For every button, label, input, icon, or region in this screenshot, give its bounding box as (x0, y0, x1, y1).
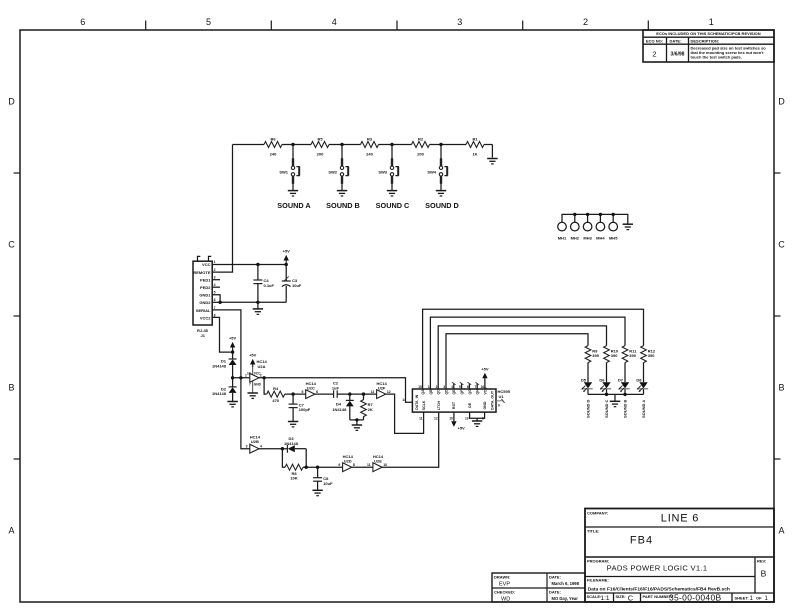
side zone ticks (14, 173, 781, 459)
svg-text:D8: D8 (636, 377, 642, 382)
svg-text:C: C (628, 594, 634, 603)
wire LED cathode rail (588, 393, 644, 395)
node R4 branch (262, 376, 265, 379)
mounting hole MH5 (609, 222, 618, 231)
zone letters left (8, 97, 15, 536)
svg-text:MH2: MH2 (571, 236, 580, 241)
svg-text:LTCH: LTCH (437, 400, 441, 410)
svg-text:COMPANY:: COMPANY: (587, 511, 608, 516)
wire R8 branch (282, 449, 306, 468)
mounting hole MH1 (558, 222, 567, 231)
node C4 top (256, 263, 259, 266)
wire LTCH net (382, 412, 439, 467)
resistor R8 (285, 464, 303, 470)
wire MH common rail (562, 214, 628, 224)
svg-text:240: 240 (270, 152, 277, 157)
wire SERIAL net (212, 310, 250, 449)
svg-text:4: 4 (451, 385, 453, 389)
node D3/R8 left (281, 447, 284, 450)
svg-text:200: 200 (317, 152, 324, 157)
svg-text:4: 4 (214, 283, 216, 287)
svg-text:DATA_IN: DATA_IN (415, 394, 419, 409)
svg-text:QG: QG (468, 389, 472, 395)
svg-text:U2A: U2A (258, 364, 266, 369)
svg-text:R5: R5 (317, 137, 323, 142)
svg-text:March 6, 1998: March 6, 1998 (552, 581, 580, 586)
svg-text:U2F: U2F (378, 386, 386, 391)
capacitor C3 polarized (285, 265, 287, 282)
svg-text:390: 390 (592, 353, 599, 358)
svg-text:1N4148: 1N4148 (332, 407, 347, 412)
svg-text:13: 13 (465, 417, 469, 421)
svg-text:REV:: REV: (757, 559, 766, 564)
svg-text:ECOs INCLUDED ON THIS SCHEMATI: ECOs INCLUDED ON THIS SCHEMATIC/PCB REVI… (656, 31, 760, 36)
no-connect stubs QE-QH (454, 384, 477, 390)
svg-text:QC: QC (437, 389, 441, 395)
svg-text:B: B (8, 383, 14, 393)
svg-text:D: D (778, 97, 785, 107)
wire rail QA to R12 (423, 309, 644, 389)
wire top chain left vertical to J1 REMOTE (212, 145, 232, 273)
power +5V U2A (250, 359, 255, 367)
resistor R12 (641, 346, 647, 363)
power +5V U1 VCC (484, 378, 486, 389)
svg-text:SERIAL: SERIAL (196, 308, 211, 313)
svg-text:QB: QB (429, 389, 433, 395)
ground SW2 (337, 191, 347, 196)
svg-text:15: 15 (418, 385, 422, 389)
svg-text:SOUND A: SOUND A (641, 400, 646, 418)
zone letters right (778, 97, 785, 536)
svg-text:touch the test switch pads.: touch the test switch pads. (691, 55, 742, 60)
capacitor C4 (257, 265, 259, 281)
resistor R11 (622, 346, 628, 363)
wire U2F to SCLK (386, 394, 424, 433)
svg-text:9: 9 (338, 463, 340, 467)
svg-text:DATE:: DATE: (549, 590, 561, 595)
svg-text:7: 7 (475, 385, 477, 389)
svg-text:C: C (8, 240, 15, 250)
wire R8 to U2D (303, 466, 343, 468)
node R7 tap (362, 392, 365, 395)
svg-text:200: 200 (417, 152, 424, 157)
node serial crossing (239, 376, 242, 379)
svg-text:DATA_OUT: DATA_OUT (491, 390, 495, 410)
svg-text:OE: OE (468, 402, 472, 408)
svg-text:QH: QH (476, 389, 480, 395)
svg-text:R2: R2 (418, 137, 424, 142)
resistor R7 (363, 394, 365, 400)
svg-text:1: 1 (428, 385, 430, 389)
svg-text:4: 4 (260, 445, 262, 449)
svg-text:390: 390 (648, 353, 655, 358)
top pin labels QA-QH VCC (421, 387, 487, 395)
svg-text:R4: R4 (273, 386, 279, 391)
wire VCC rail (212, 264, 286, 266)
node switch tap 3 (390, 143, 393, 146)
svg-text:11: 11 (419, 417, 423, 421)
svg-text:QA: QA (421, 389, 425, 395)
resistor R3 (361, 142, 379, 148)
svg-text:R6: R6 (270, 137, 276, 142)
svg-text:REMOTE: REMOTE (193, 270, 210, 275)
wire rail QD to R9 (446, 334, 588, 389)
svg-text:TITLE:: TITLE: (587, 529, 599, 534)
svg-text:U1: U1 (499, 394, 505, 399)
svg-text:WD: WD (501, 597, 510, 603)
svg-text:3: 3 (246, 445, 248, 449)
svg-text:2: 2 (214, 268, 216, 272)
wire rail QC to R10 (438, 326, 606, 389)
svg-text:3: 3 (443, 385, 445, 389)
svg-text:7: 7 (214, 306, 216, 310)
svg-text:SOUND B: SOUND B (326, 201, 360, 210)
title block (585, 509, 774, 603)
svg-text:0.1uF: 0.1uF (264, 283, 275, 288)
svg-text:SIZE:: SIZE: (616, 594, 626, 599)
ground J1 decoupling (257, 302, 259, 309)
svg-text:35-00-0040B: 35-00-0040B (669, 593, 721, 603)
svg-text:2: 2 (652, 50, 656, 59)
svg-text:DATE:: DATE: (670, 38, 682, 43)
svg-text:VCC2: VCC2 (200, 315, 211, 320)
svg-text:GND: GND (483, 401, 487, 409)
svg-text:R3: R3 (367, 137, 373, 142)
svg-text:470: 470 (272, 398, 279, 403)
svg-text:390: 390 (629, 353, 636, 358)
svg-text:D5: D5 (581, 377, 587, 382)
svg-text:SW1: SW1 (279, 170, 288, 175)
svg-text:FB4: FB4 (630, 535, 653, 547)
svg-text:SOUND A: SOUND A (277, 201, 311, 210)
node switch tap 4 (439, 143, 442, 146)
svg-text:3: 3 (457, 17, 462, 27)
svg-text:13: 13 (371, 390, 375, 394)
svg-text:QD: QD (444, 389, 448, 395)
wire R4 to U2C (285, 393, 306, 395)
svg-text:MH1: MH1 (558, 236, 567, 241)
svg-text:1N4148: 1N4148 (212, 391, 227, 396)
wire OE and GND to ground (470, 412, 485, 418)
svg-text:100pF: 100pF (299, 407, 311, 412)
svg-text:MH3: MH3 (583, 236, 592, 241)
ground MH rail (623, 224, 633, 229)
top pin numbers (418, 385, 484, 389)
svg-text:RST: RST (452, 401, 456, 409)
switch SW2 (340, 158, 348, 184)
svg-text:3/6/98: 3/6/98 (671, 52, 685, 58)
wire D4/R7 bottom rail (350, 419, 364, 421)
IC U1 HC595 body (412, 389, 496, 412)
svg-text:DRAWN:: DRAWN: (494, 575, 510, 580)
svg-text:+5V: +5V (249, 353, 257, 358)
svg-text:PED1: PED1 (200, 277, 211, 282)
svg-text:OF: OF (756, 596, 762, 601)
node D4 tap (348, 392, 351, 395)
svg-text:SCALE:: SCALE: (587, 594, 602, 599)
svg-text:MH5: MH5 (609, 236, 618, 241)
switch SW4 (439, 158, 447, 184)
node switch tap 2 (340, 143, 343, 146)
svg-text:SW2: SW2 (328, 170, 337, 175)
svg-text:1: 1 (709, 17, 714, 27)
svg-text:LINE 6: LINE 6 (661, 513, 699, 525)
wire U2A output to U1 DATA_IN (259, 378, 412, 403)
svg-text:D: D (8, 97, 15, 107)
top zone ticks (146, 21, 649, 31)
svg-text:+5V: +5V (481, 366, 489, 371)
svg-text:12: 12 (434, 417, 438, 421)
svg-text:10uF: 10uF (292, 283, 302, 288)
mounting hole MH4 (596, 222, 605, 231)
svg-text:4: 4 (332, 17, 337, 27)
svg-text:6: 6 (467, 385, 469, 389)
svg-text:+5V: +5V (283, 249, 291, 254)
svg-text:1uF: 1uF (332, 385, 340, 390)
switch SW1 (291, 158, 299, 184)
svg-text:SW4: SW4 (427, 170, 436, 175)
ground SW3 (387, 191, 397, 196)
wire switch 3 drop (391, 145, 393, 159)
diode D4 (349, 394, 351, 400)
svg-text:1: 1 (214, 260, 216, 264)
svg-text:A: A (8, 526, 14, 536)
svg-text:D6: D6 (599, 377, 605, 382)
svg-text:16: 16 (481, 385, 485, 389)
svg-text:MH4: MH4 (596, 236, 605, 241)
wire clamp node to U2A input (233, 377, 250, 379)
resistor R1 (466, 142, 484, 148)
ground D2 (227, 402, 237, 407)
svg-text:CHECKED:: CHECKED: (494, 590, 515, 595)
capacitor C8 (317, 467, 319, 478)
svg-text:5: 5 (302, 390, 304, 394)
ground top chain right end (487, 159, 497, 164)
svg-text:J1: J1 (201, 333, 206, 338)
power +5V at C3 (284, 255, 289, 263)
svg-text:7: 7 (249, 383, 251, 387)
svg-text:5: 5 (214, 291, 216, 295)
node clamp (231, 376, 234, 379)
svg-text:1:1: 1:1 (601, 595, 610, 602)
svg-text:12: 12 (387, 390, 391, 394)
svg-text:GND1: GND1 (199, 293, 211, 298)
svg-text:U2E: U2E (374, 459, 382, 464)
svg-text:2: 2 (260, 374, 262, 378)
wire switch 4 drop (440, 145, 442, 159)
resistor R5 (311, 142, 329, 148)
svg-text:390: 390 (611, 353, 618, 358)
svg-text:1: 1 (245, 374, 247, 378)
ground U2A (248, 393, 258, 398)
zone numbers top (80, 17, 713, 27)
svg-text:2K: 2K (368, 407, 373, 412)
ground C7 (288, 422, 298, 427)
svg-text:DESCRIPTION:: DESCRIPTION: (691, 38, 720, 43)
svg-text:10K: 10K (290, 476, 297, 481)
svg-text:1N4148: 1N4148 (284, 441, 299, 446)
node C3 top (285, 263, 288, 266)
node MH taps (573, 213, 576, 216)
svg-text:QE: QE (452, 389, 456, 395)
mounting hole MH3 (583, 222, 592, 231)
svg-text:240: 240 (366, 152, 373, 157)
power +5V RST (down arrow) (453, 412, 455, 421)
resistor R10 (604, 346, 610, 363)
ground SW4 (436, 191, 446, 196)
svg-text:SOUND B: SOUND B (623, 399, 628, 418)
svg-text:5: 5 (459, 385, 461, 389)
svg-text:SW3: SW3 (378, 170, 387, 175)
svg-text:5: 5 (206, 17, 211, 27)
svg-text:U2B: U2B (251, 439, 259, 444)
node LED rail joins (605, 393, 608, 396)
wire U2B out (259, 448, 287, 450)
resistor R6 (264, 142, 282, 148)
wire rail QB to R11 (430, 317, 625, 389)
svg-text:6: 6 (316, 390, 318, 394)
power +5V clamp (230, 342, 235, 350)
ground C8 (312, 490, 322, 495)
svg-text:C: C (778, 240, 785, 250)
svg-text:2: 2 (436, 385, 438, 389)
svg-text:10: 10 (449, 417, 453, 421)
switch SW3 (390, 158, 398, 184)
svg-text:SOUND C: SOUND C (376, 201, 410, 210)
resistor R9 (585, 346, 591, 363)
wire U2D to U2E (352, 466, 373, 468)
diode D2 (229, 387, 237, 393)
node C7 tap (291, 392, 294, 395)
resistor R4 (267, 391, 285, 397)
wire MH stubs (575, 214, 613, 222)
svg-text:FILENAME:: FILENAME: (587, 578, 609, 583)
svg-text:SCLK: SCLK (422, 400, 426, 410)
ground SW1 (288, 191, 298, 196)
node switch tap 1 (291, 143, 294, 146)
svg-text:B: B (761, 569, 767, 579)
svg-text:MO Day, Year: MO Day, Year (552, 596, 579, 601)
svg-text:GND: GND (254, 383, 262, 387)
wire GND rail (220, 301, 286, 303)
svg-text:GND2: GND2 (199, 300, 211, 305)
svg-text:9: 9 (498, 404, 500, 408)
svg-text:+5V: +5V (458, 426, 466, 431)
svg-text:10uF: 10uF (323, 481, 333, 486)
revision table (643, 30, 774, 62)
svg-text:ECO NO:: ECO NO: (646, 38, 663, 43)
svg-text:3: 3 (214, 275, 216, 279)
svg-text:SHEET:: SHEET: (735, 596, 749, 601)
connector J1 body (193, 261, 212, 325)
node GND1/GND2 join (218, 301, 221, 304)
svg-text:PADS POWER LOGIC V1.1: PADS POWER LOGIC V1.1 (607, 564, 708, 573)
svg-text:B: B (778, 383, 784, 393)
drawn/checked block (492, 573, 585, 603)
node ground tap (355, 418, 358, 421)
wire C2 to U2F (337, 393, 376, 395)
svg-text:SOUND D: SOUND D (586, 399, 591, 418)
svg-text:8: 8 (353, 463, 355, 467)
svg-text:11: 11 (367, 463, 371, 467)
svg-text:6: 6 (214, 298, 216, 302)
svg-text:U2C: U2C (307, 386, 315, 391)
capacitor C7 (292, 394, 294, 404)
bottom pin numbers (419, 417, 484, 421)
wire branch down to R4 (264, 378, 266, 394)
node C8 tap (316, 466, 319, 469)
svg-text:PED2: PED2 (200, 285, 211, 290)
svg-text:A: A (778, 526, 784, 536)
wire switch 1 drop (292, 145, 294, 159)
node R8 right (305, 466, 308, 469)
svg-text:D7: D7 (618, 377, 624, 382)
wire VCC2 to +5V (212, 317, 232, 352)
svg-text:QF: QF (460, 390, 464, 395)
svg-text:10: 10 (383, 463, 387, 467)
wire top chain horizontal segments (233, 145, 493, 158)
svg-text:U2D: U2D (344, 459, 352, 464)
diode D1 (229, 359, 237, 365)
ground LED rail (614, 394, 616, 401)
ground U1 (476, 418, 478, 421)
svg-text:D4: D4 (336, 402, 342, 407)
svg-text:6: 6 (80, 17, 85, 27)
svg-text:+5V: +5V (229, 336, 237, 341)
svg-text:EVP: EVP (499, 582, 510, 588)
svg-text:SOUND D: SOUND D (425, 201, 459, 210)
wire +5V to D1 (232, 349, 234, 359)
svg-text:2: 2 (583, 17, 588, 27)
svg-text:SOUND C: SOUND C (604, 399, 609, 418)
node C4 bottom (256, 301, 259, 304)
capacitor C2 series (333, 390, 335, 398)
svg-text:R1: R1 (472, 137, 478, 142)
svg-text:14: 14 (402, 398, 406, 402)
svg-text:1K: 1K (472, 152, 477, 157)
svg-text:1N4148: 1N4148 (212, 363, 227, 368)
resistor R2 (412, 142, 430, 148)
svg-text:VCC: VCC (202, 262, 211, 267)
ground D4/R7 (356, 420, 358, 425)
node VCC2 join (231, 350, 234, 353)
wire switch 2 drop (341, 145, 343, 159)
mounting hole MH2 (571, 222, 580, 231)
svg-text:DATE:: DATE: (549, 575, 561, 580)
wire U2C to C2 (315, 393, 334, 395)
connector J1 top hooks (198, 256, 212, 261)
